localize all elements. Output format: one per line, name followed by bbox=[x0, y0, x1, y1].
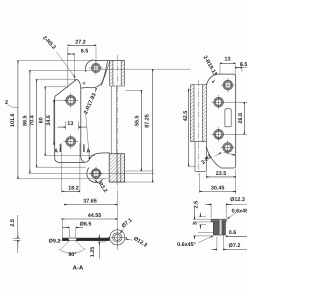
svg-text:2.5: 2.5 bbox=[10, 219, 16, 227]
svg-text:0.6x45°: 0.6x45° bbox=[177, 242, 196, 248]
bar solid fill bbox=[62, 238, 109, 240]
svg-text:6.5: 6.5 bbox=[81, 49, 89, 55]
svg-text:0.6: 0.6 bbox=[229, 230, 237, 236]
label Ø12.3 leader bbox=[126, 239, 133, 240]
dimension 87.25 bbox=[152, 69, 154, 182]
svg-text:0.6x45°: 0.6x45° bbox=[232, 209, 247, 215]
svg-text:Ø6.5: Ø6.5 bbox=[80, 221, 92, 227]
ext line y=69.2 to right view bbox=[101, 68, 191, 70]
dimension 30.45 bbox=[199, 173, 201, 193]
dimension Ø12.3 bbox=[211, 203, 226, 218]
90 degree cone lines bbox=[61, 241, 84, 250]
svg-text:101.6: 101.6 bbox=[10, 114, 16, 128]
label 2 leader bbox=[8, 105, 18, 108]
left thickness detail 2.5 bbox=[13, 238, 20, 240]
svg-text:2.5: 2.5 bbox=[194, 201, 200, 209]
svg-text:3: 3 bbox=[192, 222, 198, 225]
barrel circle cross bbox=[107, 228, 127, 248]
dimension 13 bbox=[65, 121, 78, 130]
svg-text:37.65: 37.65 bbox=[83, 198, 97, 204]
svg-text:42.5: 42.5 bbox=[183, 111, 189, 122]
bushing dim 3 line bbox=[199, 213, 201, 217]
label 2-R5.2 leader bbox=[57, 52, 76, 77]
label R3.2 leader bbox=[95, 180, 97, 183]
dimension 1.25 bbox=[98, 235, 100, 259]
svg-text:70.4: 70.4 bbox=[30, 115, 36, 126]
90 degree arc bbox=[59, 249, 86, 254]
svg-text:13: 13 bbox=[67, 121, 73, 127]
corner radius center mark bbox=[82, 82, 85, 85]
dimension 13 right view bbox=[220, 65, 235, 76]
svg-text:27.2: 27.2 bbox=[75, 40, 86, 46]
dimension 42.5 bbox=[188, 89, 190, 166]
pivot tab arc bbox=[87, 168, 103, 183]
bottom S-curve to tab bbox=[85, 153, 109, 163]
pivot hole cross bbox=[89, 167, 103, 182]
bottom knuckle hatch bbox=[109, 154, 124, 182]
plate outline bbox=[218, 74, 236, 168]
svg-text:90°: 90° bbox=[68, 252, 76, 258]
arc around top hole bbox=[85, 60, 93, 72]
svg-text:13: 13 bbox=[224, 56, 230, 62]
label Ø9.2 leader bbox=[59, 238, 67, 241]
leaf outline bbox=[55, 79, 85, 162]
dimension 55.5 bbox=[140, 90, 142, 171]
leaf hole lower bbox=[66, 137, 76, 147]
bushing dim 2.5 line bbox=[194, 208, 196, 219]
knuckle hatch bbox=[191, 84, 207, 142]
svg-text:A: A bbox=[54, 148, 58, 154]
svg-text:A: A bbox=[86, 148, 90, 154]
pivot hole bbox=[91, 169, 101, 179]
svg-text:Ø9.2: Ø9.2 bbox=[49, 238, 61, 244]
leaf hole middle bbox=[66, 95, 76, 105]
neck curve top R19.13 bbox=[206, 74, 218, 85]
ext line y=173.4 through pivot bbox=[29, 172, 155, 174]
svg-text:30.45: 30.45 bbox=[211, 186, 225, 192]
neck curve R17.93 top bbox=[81, 61, 108, 89]
svg-text:34.6: 34.6 bbox=[46, 115, 52, 126]
dimension 18.2 bbox=[62, 143, 80, 193]
dimension 37.65 bbox=[64, 204, 117, 206]
svg-text:44.55: 44.55 bbox=[88, 213, 102, 219]
dimension 60 bbox=[44, 87, 46, 156]
bushing flange bbox=[211, 219, 226, 222]
svg-text:6.5: 6.5 bbox=[240, 62, 247, 68]
dimension Ø6.5 bbox=[69, 229, 76, 238]
dimension 27.2 bbox=[68, 44, 96, 46]
dimension 0.6 right bbox=[226, 235, 247, 237]
svg-text:55.5: 55.5 bbox=[134, 115, 140, 126]
bushing body bbox=[213, 222, 225, 235]
section barrel circle bbox=[110, 230, 125, 245]
label Ø7.1 leader bbox=[121, 228, 124, 232]
svg-text:18.2: 18.2 bbox=[68, 186, 79, 192]
bushing wall hatch bbox=[213, 222, 225, 235]
countersink notch bbox=[68, 238, 77, 241]
knuckle centerline bbox=[197, 81, 199, 176]
label 2-R2 leader bbox=[215, 153, 221, 156]
dimension Ø7.2 bbox=[217, 225, 224, 251]
pin lines between knuckles bbox=[111, 86, 116, 154]
section A arrows bbox=[59, 145, 61, 150]
leaf hole top bbox=[91, 63, 100, 72]
plate hole 4 bbox=[223, 143, 233, 153]
inner diagonal edge bbox=[101, 61, 109, 86]
svg-text:A-A: A-A bbox=[73, 264, 84, 271]
top knuckle hatch bbox=[110, 61, 125, 85]
top knuckle block bbox=[110, 61, 125, 87]
svg-text:60: 60 bbox=[38, 117, 44, 123]
svg-text:26.8: 26.8 bbox=[238, 113, 244, 124]
svg-text:Ø12.3: Ø12.3 bbox=[230, 197, 245, 203]
svg-text:1.25: 1.25 bbox=[90, 247, 96, 258]
leaf top corner arc R5.2 bbox=[77, 79, 81, 88]
svg-text:2: 2 bbox=[5, 100, 8, 106]
plate hole 2 bbox=[214, 97, 224, 107]
plate hole 3 bbox=[214, 129, 224, 139]
section A-A cut marks bbox=[60, 147, 84, 152]
knuckle lower part bbox=[195, 141, 206, 171]
label 0.6x45 top leader bbox=[228, 213, 236, 219]
barrel centerline bbox=[116, 55, 118, 192]
top edge of knuckle bbox=[93, 60, 124, 62]
dimension 26.8 bbox=[243, 102, 245, 134]
label 2-R19.13 leader bbox=[213, 80, 216, 83]
plate hole 1 bbox=[223, 80, 233, 90]
dimension 70.4 bbox=[36, 79, 38, 167]
dimension 6.5 right view bbox=[241, 62, 243, 72]
knuckle section walls bbox=[191, 85, 207, 147]
dimension 44.55 bbox=[62, 218, 118, 220]
plate slot bbox=[225, 109, 231, 127]
dimension 86.5 bbox=[29, 70, 31, 173]
dimension 6.5 top bbox=[68, 53, 75, 55]
svg-text:23.5: 23.5 bbox=[216, 171, 227, 177]
bottom knuckle block bbox=[109, 154, 124, 182]
ext line y=183 bbox=[109, 181, 153, 183]
svg-text:87.25: 87.25 bbox=[144, 114, 150, 128]
section bar bbox=[62, 238, 109, 241]
svg-text:Ø7.2: Ø7.2 bbox=[229, 243, 241, 249]
neck curve bottom bbox=[206, 146, 221, 168]
dimension 34.6 bbox=[53, 100, 55, 144]
bushing bore bbox=[219, 219, 222, 235]
leaf right edge bbox=[81, 89, 86, 163]
label 2-R17.93 leader bbox=[95, 88, 96, 92]
svg-text:86.5: 86.5 bbox=[22, 115, 28, 126]
label 0.6x45 bottom leader bbox=[199, 236, 213, 242]
dimension 23.5 bbox=[206, 169, 235, 194]
dimension 101.6 bbox=[17, 61, 19, 179]
bushing ext lines bbox=[193, 217, 213, 236]
